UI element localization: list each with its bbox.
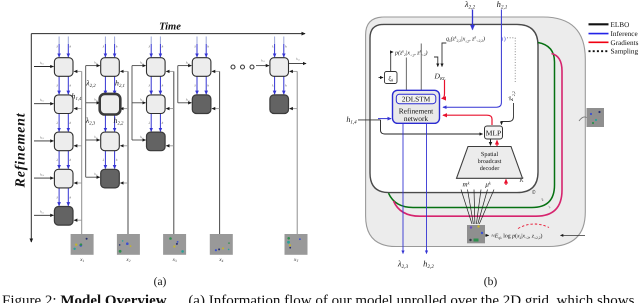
legend Inference	[589, 33, 609, 35]
svg-text:h: h	[70, 121, 72, 125]
svg-text:Sampling: Sampling	[611, 48, 639, 56]
arrow into box col1 row4 right side	[74, 182, 82, 184]
arrow from outer edge into likelihood	[561, 234, 586, 236]
arrow into box col1 row1 right side	[74, 70, 82, 72]
svg-text:): )	[501, 36, 503, 42]
svg-text:λ2,2: λ2,2	[85, 79, 96, 89]
input arrow col1 row1 left	[34, 66, 53, 68]
arrow into box col2 row4 right side	[121, 182, 129, 184]
lambda/h arrows col1 row4to5	[58, 188, 60, 206]
image input line col3	[173, 71, 175, 234]
svg-text:x3: x3	[172, 257, 177, 263]
svg-text:hk,t: hk,t	[140, 98, 144, 103]
h recurrence line col3 to col4	[177, 66, 179, 103]
lambda/h input arrows top col1	[58, 37, 60, 45]
arrow into box col4 row1 right side	[212, 70, 220, 72]
svg-text:broadcast: broadcast	[478, 158, 502, 165]
arrow into box col4 row2 left side	[178, 102, 192, 104]
legend ELBO	[589, 23, 609, 25]
refinement cell box col2 row3	[101, 132, 120, 151]
line from q into D_KL	[442, 43, 446, 67]
svg-text:): )	[504, 36, 506, 43]
arrow into box col2 row1 right side	[121, 70, 129, 72]
lambda/h input arrows top col2	[104, 37, 106, 45]
svg-text:h2,2: h2,2	[114, 116, 125, 126]
refinement cell box col5 row1	[270, 58, 289, 77]
arrow into xi_theta	[379, 77, 384, 79]
lambda/h arrows col2 row2to3	[104, 114, 106, 132]
svg-text:x2: x2	[125, 257, 130, 263]
red gradient arrow from D_KL to network	[442, 80, 445, 98]
svg-text:Spatial: Spatial	[481, 151, 498, 158]
svg-text:h0,3: h0,3	[40, 135, 44, 140]
magenta recurrence loop	[394, 54, 563, 217]
image input line col2	[127, 71, 129, 234]
arrow into box col2 row3 right side	[121, 145, 129, 147]
arrow into box col3 row3 left side	[132, 139, 146, 141]
lambda/h input arrows top col3	[150, 37, 152, 45]
arrow into box col1 row2 right side	[74, 108, 82, 110]
svg-text:h: h	[162, 45, 164, 49]
lambda/h arrows col1 row1to2	[58, 76, 60, 94]
svg-text:λ: λ	[55, 195, 58, 199]
blue input arrow into network left	[378, 118, 391, 120]
svg-text:h: h	[207, 84, 209, 88]
arrow into box col3 row3 right side	[166, 145, 174, 147]
svg-text:h: h	[116, 45, 118, 49]
arrow MLP to decoder	[490, 139, 492, 145]
svg-text:2DLSTM: 2DLSTM	[402, 95, 431, 104]
svg-text:λ: λ	[193, 45, 196, 49]
observation image x_1	[71, 234, 94, 255]
svg-text:x4: x4	[218, 257, 223, 263]
svg-text:λ: λ	[102, 45, 105, 49]
arrow reconstruction to likelihood	[485, 234, 488, 236]
arrow into box col2 row3 left side	[86, 139, 100, 141]
svg-text:hk,t: hk,t	[94, 172, 98, 177]
red dashed gradient curve over likelihood	[518, 224, 549, 229]
dark final box col5 row2	[270, 95, 289, 114]
blue output arrow lambda_2,3	[402, 124, 404, 254]
input arrow col1 row4 left	[34, 177, 53, 179]
svg-text:λ: λ	[148, 121, 151, 125]
arrow into box col2 row1 left side	[86, 65, 100, 67]
arrow into box col2 row2 right side	[121, 108, 129, 110]
input arrow col1 row3 left	[34, 140, 53, 142]
svg-text:h0,1: h0,1	[40, 61, 44, 66]
arrow into box col3 row2 right side	[166, 108, 174, 110]
refinement cell box col1 row4	[54, 169, 73, 188]
svg-text:λ: λ	[55, 84, 58, 88]
observation image x_2	[117, 234, 140, 255]
line from p into D_KL	[434, 57, 438, 67]
svg-text:h2,2: h2,2	[423, 259, 434, 271]
svg-text:hk,t: hk,t	[186, 60, 190, 65]
red gradient arrow decoder to MLP	[496, 141, 498, 147]
observation image x_3	[163, 234, 186, 255]
subfigure a	[14, 22, 308, 289]
blue line h_2,1 into refinement network	[443, 10, 501, 108]
lambda/h arrows col1 row3to4	[58, 151, 60, 169]
svg-text:x1: x1	[79, 257, 84, 263]
svg-text:h: h	[162, 84, 164, 88]
refinement axis arrow	[30, 34, 32, 242]
lambda/h input arrows top col4	[196, 37, 198, 45]
h recurrence line col1 to col2	[85, 66, 87, 178]
image input line col1	[81, 71, 83, 234]
arrow from dots into last column row1	[256, 65, 269, 67]
dark final box col4 row2	[192, 95, 211, 114]
subfigure b	[346, 0, 638, 288]
svg-text:hT,1: hT,1	[296, 57, 300, 62]
image input line col4	[219, 71, 221, 234]
refinement cell box col1 row2	[54, 95, 73, 114]
legend Gradients	[589, 41, 609, 43]
outer time-recurrence rounded box	[366, 17, 586, 247]
svg-text:λ: λ	[55, 121, 58, 125]
lambda/h arrows col3 row1to2	[150, 76, 152, 94]
refinement cell box col2 row1	[101, 58, 120, 77]
svg-text:h0,5: h0,5	[40, 210, 44, 215]
arrow into box col2 row4 left side	[86, 176, 100, 178]
svg-text:λ: λ	[271, 45, 274, 49]
svg-text:h: h	[116, 158, 118, 162]
svg-text:MLP: MLP	[486, 129, 501, 138]
arrow into box col3 row2 left side	[132, 102, 146, 104]
svg-text:hk,t: hk,t	[140, 135, 144, 140]
dark final box col2 row4	[101, 169, 120, 188]
arrow into box col5 row2 right side	[290, 108, 298, 110]
svg-text:h: h	[70, 158, 72, 162]
svg-text:Inference: Inference	[611, 30, 638, 38]
deterministic line into MLP	[381, 120, 483, 134]
svg-text:λ: λ	[55, 158, 58, 162]
green recurrence loop	[389, 43, 555, 208]
svg-text:h2,1: h2,1	[497, 0, 508, 11]
svg-text:h: h	[285, 84, 287, 88]
svg-text:h: h	[285, 45, 287, 49]
image input line col5	[296, 71, 298, 234]
svg-text:hk,t: hk,t	[186, 98, 190, 103]
svg-text:λ2,3: λ2,3	[85, 116, 96, 126]
lambda/h arrows col2 row1to2	[104, 76, 106, 94]
blue output arrow h_2,2	[426, 124, 428, 254]
svg-text:Gradients: Gradients	[611, 39, 639, 47]
lambda/h arrows col5 row1to2	[274, 76, 276, 94]
h recurrence line col2 to col3	[131, 66, 133, 140]
figure caption	[2, 293, 640, 303]
svg-text:(a): (a)	[154, 276, 167, 288]
svg-text:K: K	[518, 177, 524, 184]
arrow into box col5 row1 right side	[290, 70, 298, 72]
lambda/h arrows col4 row1to2	[196, 76, 198, 94]
reconstruction image patch	[467, 225, 485, 243]
svg-text:xT: xT	[293, 257, 299, 263]
arrow into box col3 row1 right side	[166, 70, 174, 72]
svg-text:hk,t: hk,t	[94, 135, 98, 140]
ellipsis dots	[231, 65, 235, 69]
lambda/h arrows col2 row3to4	[104, 151, 106, 169]
spatial broadcast decoder	[457, 147, 523, 179]
svg-text:λ: λ	[271, 84, 274, 88]
highlighted refinement cell col2 row2	[100, 94, 121, 115]
line network to p	[405, 58, 407, 91]
blue arrow lambda into q	[472, 10, 474, 30]
svg-text:h0,4: h0,4	[40, 173, 44, 178]
input arrow col1 row5 left	[34, 214, 53, 216]
svg-text:h1,4: h1,4	[346, 115, 357, 125]
svg-text:λ: λ	[148, 84, 151, 88]
svg-text:ELBO: ELBO	[611, 21, 630, 29]
svg-text:h2,1: h2,1	[115, 79, 125, 89]
red gradient arrow into decoder bottom	[505, 180, 507, 186]
svg-text:Refinement: Refinement	[14, 112, 29, 188]
red gradient arrow into network right (from decoder)	[443, 115, 492, 125]
refinement cell box col3 row1	[147, 58, 166, 77]
svg-text:h: h	[70, 195, 72, 199]
arrow into box col2 row2 left side	[86, 102, 100, 104]
svg-text:hk,t: hk,t	[140, 60, 144, 65]
svg-text:λ: λ	[193, 84, 196, 88]
input line h_1,4 into network	[358, 119, 381, 121]
svg-text:h0,2: h0,2	[40, 98, 44, 103]
legend Sampling	[589, 50, 609, 52]
arrow into box col4 row1 left side	[178, 65, 192, 67]
inner refinement-recurrence box (ELBO loop)	[370, 24, 538, 192]
svg-text:hk,t: hk,t	[94, 98, 98, 103]
svg-text:h: h	[70, 45, 72, 49]
lambda/h arrows col3 row2to3	[150, 114, 152, 132]
dark final box col3 row3	[147, 132, 166, 151]
arrow into box col1 row5 right side	[74, 219, 82, 221]
input arrow col1 row2 left	[34, 103, 53, 105]
refinement cell box col3 row2	[147, 95, 166, 114]
observation image x_4	[210, 234, 233, 255]
h output arrow exiting last column right	[289, 63, 307, 65]
arrow from xi_theta to prior p	[391, 52, 393, 72]
svg-text:hT-1: hT-1	[261, 59, 265, 64]
svg-text:λ: λ	[55, 45, 58, 49]
lambda/h arrows col1 row2to3	[58, 114, 60, 132]
line network to q	[420, 44, 422, 91]
svg-text:λ: λ	[102, 158, 105, 162]
line z to MLP	[502, 103, 514, 125]
connector curve to external patch	[579, 117, 587, 121]
arrow into box col4 row2 right side	[212, 108, 220, 110]
svg-text:h: h	[207, 45, 209, 49]
arrow into box col3 row1 left side	[132, 65, 146, 67]
MLP block	[485, 126, 503, 139]
fan lines decoder outputs to reconstruction	[461, 190, 472, 225]
time axis arrow	[31, 33, 305, 35]
refinement cell box col1 row1	[54, 58, 73, 77]
svg-text:λ2,3: λ2,3	[397, 259, 409, 271]
dotted sampling line from q to z	[514, 38, 516, 83]
svg-text:Time: Time	[159, 22, 181, 33]
lambda/h input arrows top col5	[274, 37, 276, 45]
dark final box col1 row5	[54, 207, 73, 226]
svg-text:h: h	[70, 84, 72, 88]
refinement cell box col1 row3	[54, 132, 73, 151]
refinement cell box col4 row1	[192, 58, 211, 77]
2DLSTM sub-box	[396, 94, 436, 103]
svg-text:network: network	[404, 114, 429, 123]
external observation patch	[587, 108, 605, 127]
svg-text:λ2,2: λ2,2	[464, 0, 476, 11]
svg-text:(b): (b)	[484, 276, 498, 288]
svg-text:hk,t: hk,t	[94, 60, 98, 65]
svg-text:λ: λ	[148, 45, 151, 49]
xi_theta parameter box	[385, 72, 398, 84]
svg-text:h: h	[162, 121, 164, 125]
arrow into box col1 row3 right side	[74, 145, 82, 147]
observation image x_T	[285, 234, 308, 255]
svg-text:decoder: decoder	[480, 165, 500, 172]
refinement network block	[393, 90, 440, 123]
